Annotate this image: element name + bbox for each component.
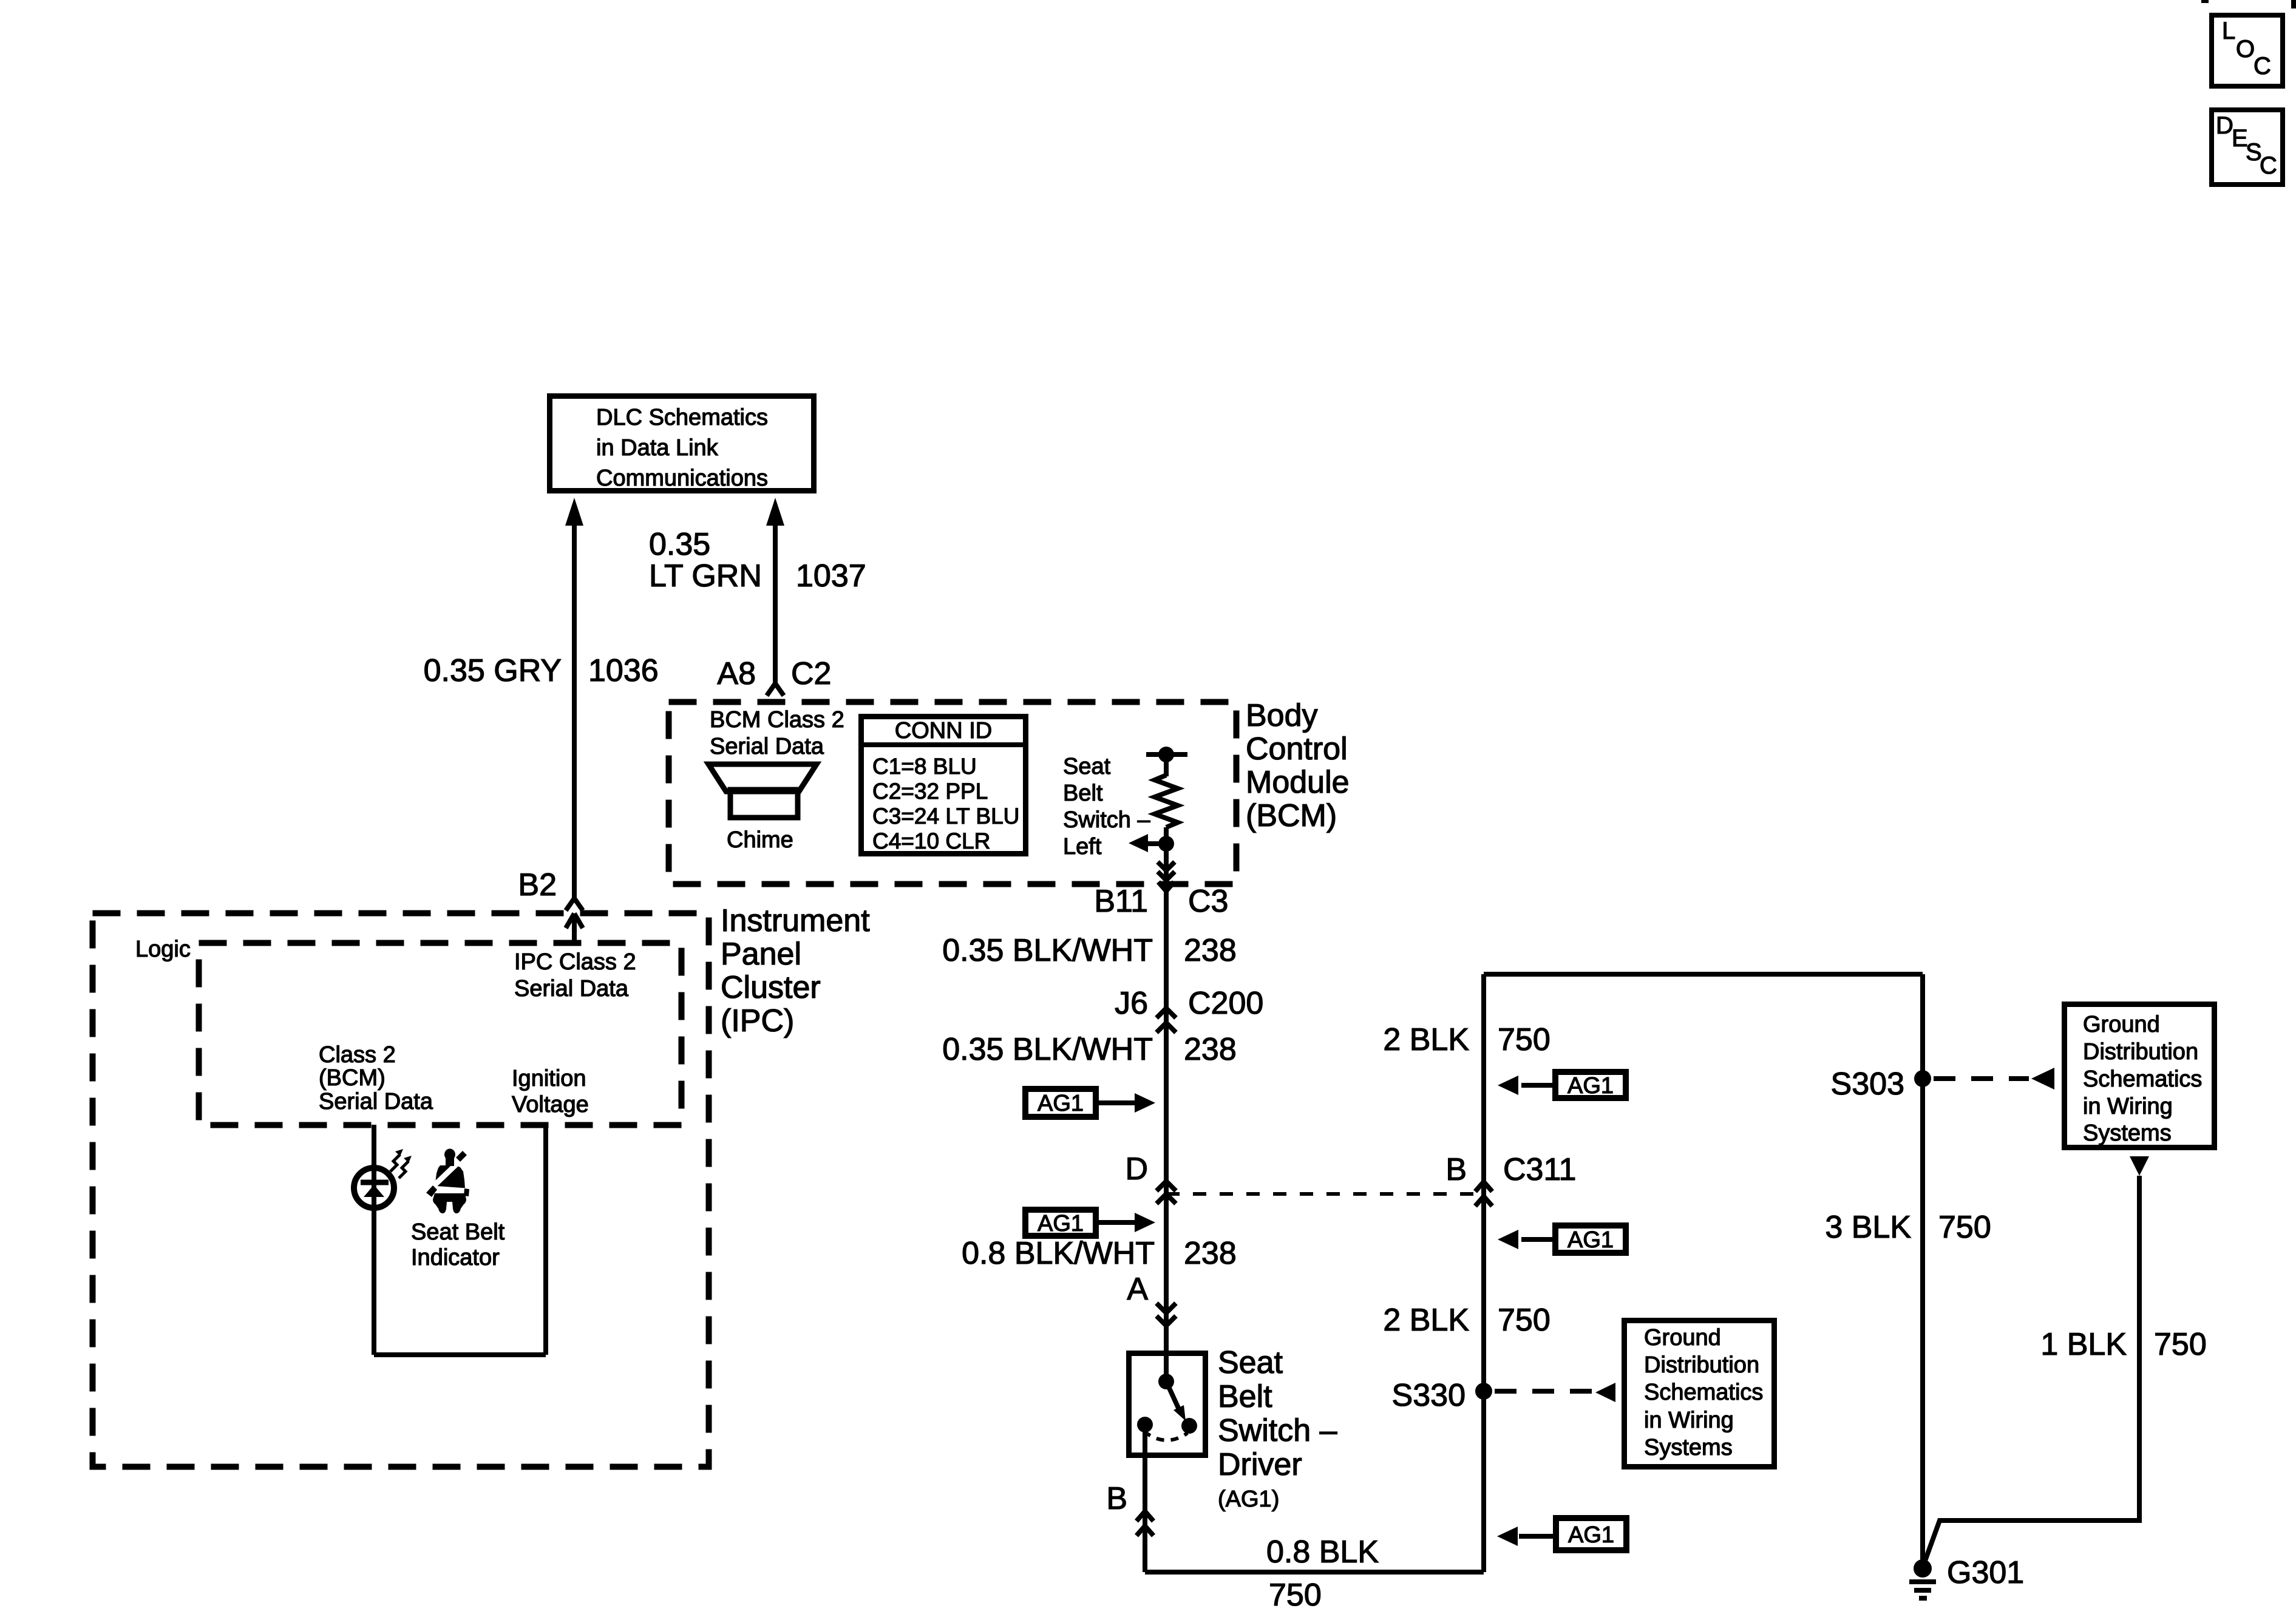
svg-text:1036: 1036 [588, 653, 659, 688]
svg-text:2 BLK: 2 BLK [1383, 1022, 1469, 1057]
svg-text:C1=8 BLU: C1=8 BLU [872, 754, 977, 779]
svg-text:238: 238 [1184, 933, 1237, 968]
svg-text:Seat Belt: Seat Belt [411, 1219, 505, 1245]
svg-text:C311: C311 [1503, 1152, 1576, 1187]
svg-text:750: 750 [2154, 1327, 2207, 1362]
svg-text:Distribution: Distribution [2083, 1039, 2198, 1065]
svg-text:Class 2: Class 2 [319, 1042, 396, 1068]
svg-text:Systems: Systems [1644, 1435, 1733, 1460]
svg-text:Control: Control [1246, 731, 1348, 767]
svg-text:0.35: 0.35 [649, 527, 710, 562]
svg-text:Belt: Belt [1063, 781, 1103, 806]
svg-text:750: 750 [1498, 1022, 1550, 1057]
svg-text:Switch –: Switch – [1063, 807, 1150, 833]
svg-text:Chime: Chime [727, 827, 793, 853]
svg-text:Switch –: Switch – [1218, 1413, 1337, 1448]
svg-text:in Wiring: in Wiring [2083, 1094, 2173, 1119]
svg-text:Distribution: Distribution [1644, 1352, 1759, 1378]
svg-text:2 BLK: 2 BLK [1383, 1303, 1469, 1338]
svg-text:S330: S330 [1392, 1378, 1466, 1413]
svg-text:Serial Data: Serial Data [514, 976, 629, 1002]
svg-text:C2: C2 [791, 656, 831, 691]
svg-text:J6: J6 [1115, 986, 1148, 1021]
svg-text:BCM Class 2: BCM Class 2 [710, 707, 844, 733]
svg-text:(IPC): (IPC) [721, 1003, 794, 1039]
svg-text:0.8 BLK: 0.8 BLK [1266, 1534, 1379, 1570]
svg-text:Seat: Seat [1218, 1345, 1283, 1380]
svg-text:Cluster: Cluster [721, 970, 821, 1005]
svg-text:1037: 1037 [796, 558, 866, 594]
svg-text:B11: B11 [1094, 884, 1148, 919]
svg-text:AG1: AG1 [1568, 1522, 1614, 1548]
svg-text:IPC Class 2: IPC Class 2 [514, 949, 636, 975]
svg-text:Driver: Driver [1218, 1447, 1302, 1482]
svg-text:(BCM): (BCM) [319, 1065, 385, 1091]
svg-text:Logic: Logic [135, 937, 191, 962]
svg-text:Belt: Belt [1218, 1379, 1272, 1414]
svg-text:Ground: Ground [1644, 1325, 1721, 1351]
svg-text:AG1: AG1 [1567, 1073, 1614, 1099]
svg-text:Voltage: Voltage [512, 1092, 589, 1117]
svg-text:Body: Body [1246, 698, 1318, 733]
svg-text:Indicator: Indicator [411, 1245, 500, 1270]
svg-text:LT GRN: LT GRN [649, 558, 762, 594]
svg-text:Schematics: Schematics [1644, 1380, 1763, 1405]
svg-text:0.35 BLK/WHT: 0.35 BLK/WHT [942, 1032, 1153, 1067]
svg-text:Serial Data: Serial Data [319, 1089, 433, 1114]
svg-text:O: O [2236, 36, 2255, 63]
svg-text:CONN ID: CONN ID [895, 718, 992, 744]
svg-text:Instrument: Instrument [721, 903, 870, 938]
svg-text:AG1: AG1 [1038, 1211, 1084, 1236]
svg-text:750: 750 [1938, 1210, 1991, 1245]
svg-text:G301: G301 [1947, 1555, 2024, 1590]
svg-text:Panel: Panel [721, 937, 801, 972]
svg-text:Seat: Seat [1063, 754, 1111, 779]
svg-text:DLC Schematics: DLC Schematics [596, 405, 768, 430]
svg-text:Serial Data: Serial Data [710, 734, 824, 759]
svg-text:C: C [2260, 152, 2277, 179]
svg-text:C4=10 CLR: C4=10 CLR [872, 829, 990, 853]
svg-text:A8: A8 [717, 656, 756, 691]
svg-text:D: D [1125, 1151, 1148, 1187]
svg-text:Systems: Systems [2083, 1120, 2172, 1146]
svg-text:C3=24 LT BLU: C3=24 LT BLU [872, 804, 1019, 829]
svg-text:AG1: AG1 [1038, 1091, 1084, 1116]
svg-text:0.35 BLK/WHT: 0.35 BLK/WHT [942, 933, 1153, 968]
svg-text:in Data Link: in Data Link [596, 435, 719, 461]
svg-text:B: B [1106, 1481, 1127, 1516]
svg-text:AG1: AG1 [1567, 1227, 1614, 1253]
svg-text:(AG1): (AG1) [1218, 1486, 1279, 1512]
svg-text:Ground: Ground [2083, 1012, 2160, 1037]
svg-text:1 BLK: 1 BLK [2040, 1327, 2127, 1362]
svg-text:in Wiring: in Wiring [1644, 1408, 1734, 1433]
svg-text:238: 238 [1184, 1236, 1237, 1271]
svg-text:L: L [2222, 18, 2235, 44]
svg-text:B: B [1445, 1152, 1467, 1187]
svg-text:S303: S303 [1831, 1066, 1904, 1102]
svg-text:(BCM): (BCM) [1246, 798, 1337, 833]
svg-text:C2=32 PPL: C2=32 PPL [872, 779, 988, 804]
svg-text:Ignition: Ignition [512, 1066, 586, 1091]
svg-text:D: D [2216, 112, 2233, 139]
svg-text:C3: C3 [1188, 884, 1228, 919]
svg-text:3 BLK: 3 BLK [1825, 1210, 1911, 1245]
svg-text:Module: Module [1246, 765, 1350, 800]
svg-text:0.8 BLK/WHT: 0.8 BLK/WHT [962, 1236, 1155, 1271]
svg-text:B2: B2 [518, 867, 557, 903]
svg-text:A: A [1127, 1272, 1148, 1307]
svg-text:Communications: Communications [596, 466, 768, 491]
svg-text:C: C [2254, 53, 2271, 80]
svg-text:750: 750 [1269, 1578, 1322, 1613]
svg-text:0.35 GRY: 0.35 GRY [424, 653, 562, 688]
svg-text:750: 750 [1498, 1303, 1550, 1338]
svg-text:Schematics: Schematics [2083, 1066, 2202, 1092]
svg-text:238: 238 [1184, 1032, 1237, 1067]
svg-text:Left: Left [1063, 834, 1102, 859]
svg-text:C200: C200 [1188, 986, 1263, 1021]
